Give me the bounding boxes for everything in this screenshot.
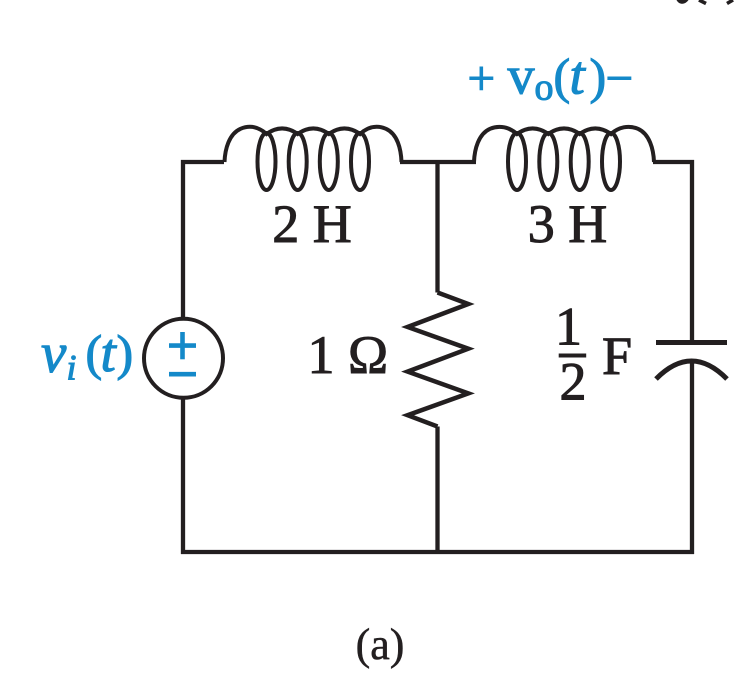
svg-text:3 H: 3 H [528,194,608,254]
svg-text:v: v [508,46,535,106]
svg-text:t: t [101,322,118,383]
svg-text:+: + [468,51,496,106]
svg-text:2: 2 [560,352,587,412]
svg-text:−: − [606,51,634,106]
svg-text:(: ( [554,48,571,104]
svg-text:1 Ω: 1 Ω [308,325,389,385]
svg-text:(a): (a) [356,620,405,669]
svg-text:): ) [117,325,134,381]
svg-text:v: v [41,322,67,385]
svg-text:): ) [590,48,607,104]
svg-text:o: o [535,67,554,109]
svg-text:F: F [602,326,632,386]
svg-text:2 H: 2 H [272,194,352,254]
svg-text:1: 1 [555,297,582,357]
svg-text:t: t [570,45,587,106]
svg-text:i: i [67,348,77,388]
